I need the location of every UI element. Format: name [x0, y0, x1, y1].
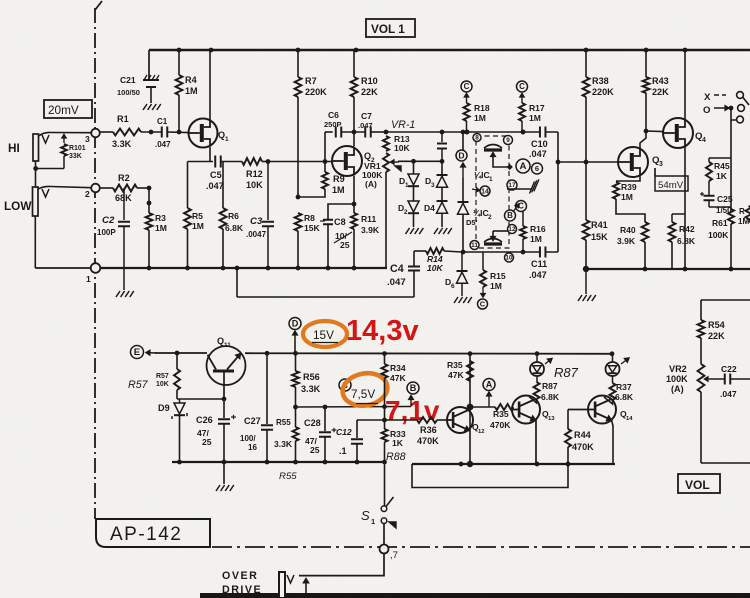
wire VR1 bottom — [385, 172, 387, 268]
wire Q2 gate line — [268, 161, 332, 163]
diode D5 — [458, 201, 469, 203]
transistor Q13 — [512, 396, 540, 424]
transistor Q11 — [207, 346, 246, 385]
resistor R2 — [100, 187, 113, 189]
wire IC bottom — [463, 251, 540, 253]
capacitor C6 — [335, 127, 337, 138]
AP-142 label box — [95, 519, 210, 547]
wire VR2 bottom — [700, 392, 702, 463]
resistor R6 — [222, 162, 224, 209]
diode D1 — [413, 161, 415, 174]
pin 6 — [532, 163, 543, 174]
resistor R42 — [672, 213, 685, 215]
node B marker — [505, 210, 516, 221]
capacitor C7 — [364, 127, 366, 138]
transistor Q4 — [663, 118, 693, 148]
20mV label box — [44, 100, 92, 118]
capacitor C22 — [724, 374, 726, 385]
wire R54 top — [701, 299, 750, 301]
wire Q4 drain — [684, 50, 686, 120]
terminal S1 bottom — [380, 545, 389, 554]
wire +15V line — [155, 352, 207, 354]
ground Q11 — [223, 462, 225, 484]
wire feedback loop — [412, 464, 568, 488]
pin 12 — [508, 225, 517, 234]
LOW input jack — [33, 187, 39, 216]
resistor R37 — [612, 377, 614, 384]
resistor R55 — [295, 407, 297, 427]
HI input jack — [33, 134, 39, 161]
switch lower contact — [737, 116, 744, 123]
wire C4 return — [236, 268, 238, 297]
diode D9 zener — [179, 399, 181, 403]
capacitor C4 — [413, 271, 415, 298]
wire Q11 base line — [177, 398, 224, 400]
wire Q14 emitter — [612, 420, 614, 464]
resistor R33 — [384, 420, 386, 429]
capacitor C5 — [214, 156, 216, 168]
wire Q3 gate line — [558, 161, 618, 163]
wire ground rail upper — [100, 267, 387, 269]
terminal 1 — [35, 267, 91, 269]
resistor R9 — [324, 162, 326, 173]
wire Q2 source — [353, 176, 355, 204]
resistor R3 — [148, 188, 150, 213]
pin 8 — [473, 134, 481, 142]
capacitor C8 — [328, 204, 354, 219]
wire Q4 gate — [646, 130, 664, 133]
wire jack sleeve column — [35, 161, 37, 187]
resistor R40 — [642, 222, 649, 242]
node E marker — [131, 346, 144, 359]
resistor R8 — [295, 213, 302, 231]
wire Q3 drain — [640, 131, 646, 148]
resistor R101 — [63, 135, 65, 144]
ground R41 — [585, 269, 587, 294]
node D marker — [462, 132, 464, 150]
diode D6 — [461, 252, 463, 271]
resistor R1 — [100, 131, 113, 133]
resistor R10 — [353, 50, 355, 77]
wire C7 to C10 — [386, 131, 540, 133]
resistor R15 — [482, 252, 484, 270]
transistor Q12 — [447, 407, 473, 433]
resistor R35 series — [495, 404, 513, 410]
resistor R11 — [353, 204, 355, 213]
resistor R38 — [585, 50, 587, 77]
diode D4 — [437, 200, 448, 202]
pin 11 — [470, 241, 479, 250]
resistor R45 — [709, 157, 731, 159]
ground D6 — [454, 297, 458, 303]
wire switch column — [730, 108, 732, 158]
ground D2 — [406, 228, 410, 234]
node C marker lower — [339, 379, 351, 391]
node B marker lower — [407, 382, 419, 394]
LED R37 — [606, 362, 620, 376]
resistor R43 — [645, 50, 647, 77]
capacitor C2 — [123, 188, 125, 220]
wire 7.5V node line — [296, 406, 412, 409]
capacitor C28 — [324, 407, 326, 431]
wire left dash-dot border — [95, 1, 102, 10]
resistor R17 — [517, 81, 528, 92]
resistor R56 — [295, 353, 297, 371]
capacitor C9 — [441, 132, 443, 142]
resistor R57 — [176, 353, 178, 369]
diode D2 — [408, 201, 419, 212]
capacitor C3 — [266, 159, 271, 164]
wire VR1 wiper line — [398, 160, 442, 162]
resistor R44 — [567, 410, 569, 430]
label 54mV box — [655, 176, 688, 191]
VOL 1 label box — [366, 19, 415, 37]
terminal 3 — [51, 132, 91, 134]
op-amp U2 quarter IC2 — [484, 242, 502, 245]
wire Q1 drain — [209, 50, 211, 120]
terminal 2 — [51, 187, 91, 188]
resistor R16 — [522, 211, 524, 226]
node C output marker — [478, 299, 488, 309]
capacitor C25 — [704, 195, 715, 197]
wire Q1 source — [209, 147, 211, 162]
resistor R35 upper — [467, 361, 473, 381]
wire Q1 source line — [188, 161, 214, 163]
capacitor C1 — [161, 127, 163, 138]
transistor Q1 — [189, 119, 218, 148]
pin 14 — [480, 186, 490, 196]
transistor Q3 — [618, 147, 648, 177]
resistor R13 — [383, 136, 389, 151]
wire ground rail lower left — [172, 461, 385, 463]
resistor R34 — [384, 354, 386, 364]
resistor R54 — [700, 300, 702, 320]
capacitor C12 — [356, 420, 358, 438]
wire C10-C11 junction column — [557, 132, 559, 252]
capacitor C10 — [539, 127, 541, 138]
node A marker lower — [483, 379, 495, 391]
wire Q12 base line — [357, 419, 385, 421]
wire top supply rail — [149, 49, 750, 51]
resistor R39 — [613, 182, 619, 199]
potentiometer VR1 — [383, 153, 389, 172]
resistor R41 — [585, 162, 587, 220]
resistor R5 — [187, 162, 189, 209]
resistor R4 — [178, 50, 180, 75]
node C marker — [516, 201, 527, 212]
wire IC top — [465, 130, 470, 135]
resistor R51 edge — [746, 206, 750, 222]
transistor Q14 — [588, 396, 616, 424]
capacitor C11 — [539, 247, 541, 258]
wire Q3 source — [616, 176, 640, 181]
wire bottom dash-dot border — [212, 546, 750, 548]
resistor R61 — [730, 158, 732, 209]
node A marker — [516, 159, 530, 173]
IC dashed box — [476, 136, 509, 248]
ground D4 — [434, 228, 438, 234]
LED R87 — [530, 362, 544, 376]
resistor R12 — [221, 161, 242, 163]
diode D3 — [441, 161, 443, 175]
node D marker lower — [289, 318, 301, 330]
pin 17 — [507, 180, 517, 190]
wire Q13 emitter line — [535, 420, 537, 465]
wire Q14 base line — [568, 409, 588, 411]
wire Q12 collector line — [470, 406, 495, 408]
wire ground rail right — [586, 268, 750, 270]
wire C6 feedback — [324, 132, 326, 162]
bottom black strip — [200, 593, 750, 598]
resistor R7 — [297, 50, 299, 77]
op-amp U1 quarter IC1 — [484, 148, 502, 151]
pin 10 — [505, 253, 514, 262]
ellipse 15V annotation — [303, 321, 347, 347]
ellipse 7.5V annotation — [340, 370, 390, 409]
wire Q12 column — [469, 354, 471, 464]
wire ground rail lower — [412, 463, 615, 465]
resistor R87 — [536, 377, 538, 383]
resistor R36 — [385, 419, 418, 421]
wire Q2 drain — [353, 132, 355, 146]
potentiometer VR2 — [698, 364, 705, 392]
capacitor C26 — [223, 399, 225, 418]
resistor R18 — [461, 81, 472, 92]
pin 9 — [504, 136, 513, 145]
transistor Q2 — [332, 146, 362, 176]
wire Q4 source — [684, 146, 686, 269]
resistor R14 — [414, 250, 426, 252]
capacitor C27 — [266, 353, 268, 424]
VOL label box — [678, 474, 720, 493]
